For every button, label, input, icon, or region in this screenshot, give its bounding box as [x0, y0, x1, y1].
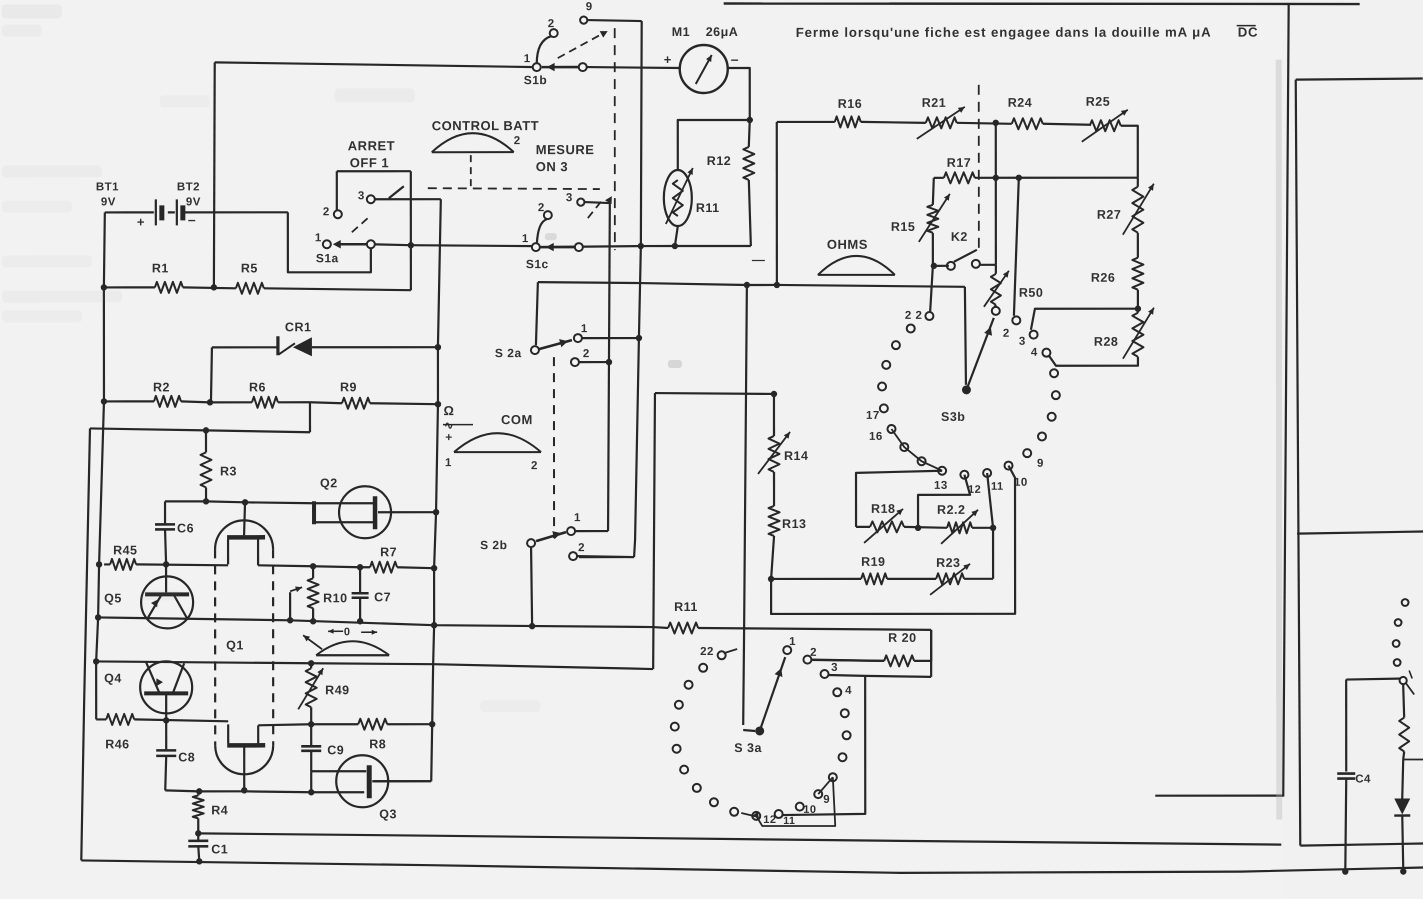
- svg-text:S1a: S1a: [316, 251, 339, 265]
- svg-text:1: 1: [522, 233, 529, 245]
- svg-text:R1: R1: [152, 261, 169, 275]
- svg-text:M1: M1: [672, 25, 690, 39]
- svg-text:BT1: BT1: [96, 181, 119, 193]
- svg-text:2: 2: [810, 647, 817, 659]
- svg-text:1: 1: [789, 636, 796, 648]
- svg-text:R21: R21: [922, 96, 946, 110]
- svg-text:+: +: [137, 214, 145, 229]
- svg-text:R25: R25: [1086, 95, 1110, 109]
- svg-text:1: 1: [315, 232, 322, 244]
- svg-text:22: 22: [700, 646, 714, 658]
- svg-text:S 2b: S 2b: [480, 538, 507, 552]
- svg-text:R11: R11: [696, 201, 720, 215]
- svg-text:17: 17: [866, 410, 880, 422]
- svg-text:R14: R14: [784, 449, 808, 463]
- svg-text:R45: R45: [113, 543, 137, 557]
- svg-text:R24: R24: [1008, 96, 1032, 110]
- svg-text:+: +: [664, 52, 672, 67]
- svg-text:C1: C1: [211, 842, 228, 856]
- svg-text:DC: DC: [1238, 25, 1259, 40]
- svg-text:S1b: S1b: [524, 73, 548, 87]
- svg-text:2 2: 2 2: [905, 310, 923, 322]
- svg-text:C6: C6: [177, 521, 194, 535]
- svg-text:R26: R26: [1091, 271, 1115, 285]
- svg-text:R12: R12: [707, 154, 731, 168]
- svg-text:4: 4: [1031, 347, 1038, 359]
- svg-text:R50: R50: [1019, 286, 1043, 300]
- svg-text:9V: 9V: [186, 196, 201, 208]
- svg-text:0: 0: [344, 626, 351, 638]
- svg-text:C9: C9: [327, 743, 344, 757]
- svg-text:2: 2: [1003, 328, 1010, 340]
- svg-text:R23: R23: [936, 556, 960, 570]
- svg-text:S 2a: S 2a: [495, 346, 522, 360]
- svg-text:—: —: [752, 252, 766, 267]
- svg-text:9: 9: [1037, 458, 1044, 470]
- svg-text:R8: R8: [369, 737, 386, 751]
- svg-text:S1c: S1c: [526, 257, 549, 271]
- svg-text:2: 2: [578, 542, 585, 554]
- svg-text:9: 9: [823, 794, 830, 806]
- svg-text:ARRET: ARRET: [348, 138, 395, 153]
- svg-text:2: 2: [538, 202, 545, 214]
- svg-text:R27: R27: [1097, 208, 1121, 222]
- svg-text:Ω: Ω: [443, 403, 454, 418]
- svg-text:3: 3: [358, 190, 365, 202]
- svg-text:OHMS: OHMS: [827, 237, 868, 252]
- svg-text:R13: R13: [782, 517, 806, 531]
- svg-text:S 3a: S 3a: [734, 741, 762, 755]
- svg-text:+: +: [445, 430, 453, 444]
- svg-text:S3b: S3b: [941, 410, 965, 424]
- svg-text:3: 3: [1019, 336, 1026, 348]
- svg-text:2: 2: [583, 348, 590, 360]
- svg-text:R11: R11: [674, 600, 698, 614]
- svg-text:12: 12: [763, 814, 776, 826]
- svg-text:R4: R4: [211, 803, 228, 817]
- svg-text:R49: R49: [325, 683, 349, 697]
- svg-text:MESURE: MESURE: [536, 142, 595, 157]
- svg-text:4: 4: [845, 685, 852, 697]
- svg-text:3: 3: [566, 192, 573, 204]
- svg-text:R2.2: R2.2: [937, 503, 965, 517]
- svg-text:C8: C8: [178, 750, 195, 764]
- svg-text:1: 1: [581, 323, 588, 335]
- svg-text:R16: R16: [838, 97, 862, 111]
- svg-text:Ferme lorsqu'une fiche est eng: Ferme lorsqu'une fiche est engagee dans …: [796, 25, 1212, 40]
- svg-text:R7: R7: [380, 545, 397, 559]
- svg-text:12: 12: [968, 484, 981, 496]
- svg-text:CONTROL BATT: CONTROL BATT: [432, 118, 539, 133]
- svg-text:R18: R18: [871, 502, 895, 516]
- svg-text:K2: K2: [951, 230, 968, 244]
- svg-text:9V: 9V: [101, 196, 116, 208]
- svg-text:R6: R6: [249, 380, 266, 394]
- svg-text:1: 1: [445, 457, 452, 469]
- svg-text:R46: R46: [105, 737, 129, 751]
- svg-text:Q4: Q4: [104, 671, 122, 685]
- svg-text:CR1: CR1: [285, 320, 312, 334]
- svg-text:–: –: [731, 51, 739, 67]
- svg-text:3: 3: [831, 662, 838, 674]
- svg-text:9: 9: [586, 1, 593, 13]
- svg-text:2: 2: [514, 135, 521, 147]
- svg-text:R5: R5: [241, 261, 258, 275]
- svg-text:Q3: Q3: [379, 807, 397, 821]
- svg-text:10: 10: [803, 804, 816, 816]
- svg-text:R9: R9: [340, 380, 357, 394]
- svg-text:Q2: Q2: [320, 476, 338, 490]
- svg-text:1: 1: [524, 53, 531, 65]
- svg-text:–: –: [188, 211, 196, 227]
- svg-text:R17: R17: [947, 156, 971, 170]
- svg-text:2: 2: [531, 460, 538, 472]
- svg-text:R 20: R 20: [888, 631, 916, 645]
- svg-text:C4: C4: [1355, 774, 1371, 786]
- svg-text:COM: COM: [501, 412, 533, 427]
- svg-text:R15: R15: [891, 220, 915, 234]
- svg-text:R10: R10: [323, 591, 347, 605]
- svg-text:ON 3: ON 3: [536, 159, 568, 174]
- svg-text:11: 11: [991, 481, 1004, 493]
- svg-text:R19: R19: [861, 555, 885, 569]
- svg-text:10: 10: [1014, 477, 1028, 489]
- svg-text:26μA: 26μA: [706, 25, 739, 39]
- svg-text:1: 1: [574, 512, 581, 524]
- svg-text:11: 11: [783, 815, 795, 827]
- svg-text:Q5: Q5: [104, 591, 122, 605]
- svg-text:13: 13: [934, 480, 948, 492]
- svg-text:C7: C7: [374, 590, 391, 604]
- svg-text:Q1: Q1: [226, 638, 244, 652]
- svg-text:BT2: BT2: [177, 181, 200, 193]
- svg-text:R28: R28: [1094, 335, 1118, 349]
- svg-text:16: 16: [869, 431, 883, 443]
- svg-text:2: 2: [323, 206, 330, 218]
- svg-text:2: 2: [548, 18, 555, 30]
- svg-text:OFF 1: OFF 1: [350, 155, 389, 170]
- svg-text:R3: R3: [220, 464, 237, 478]
- svg-text:R2: R2: [153, 380, 170, 394]
